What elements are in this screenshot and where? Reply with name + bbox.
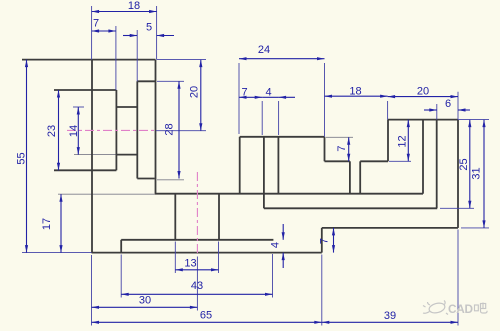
dimension 25 (458, 120, 472, 209)
ext line x=239 for dims 24,7 (238, 63, 240, 134)
ext line y=161 for dim 12 bottom (389, 160, 411, 162)
ext line x=437 for dim 6 (436, 104, 438, 120)
ext stub y=107 for dim 14 top (73, 106, 84, 108)
svg-text:7: 7 (318, 238, 330, 244)
part edge y=178.5 bottom of 5-band (137, 178, 154, 180)
watermark CAD logo icon (mouse doodle) (423, 301, 448, 315)
extension line y=194 for dim 17 top (58, 193, 155, 195)
part edge y=155 bottom of 14-band (116, 154, 137, 156)
ext line y=137 for dim 7 right (326, 136, 353, 138)
ext line y=208 for dim 25 bottom (440, 207, 474, 209)
part edge y=170 bottom of 23-band (ext to dim 23) (54, 169, 116, 171)
dimension 18 top (92, 0, 157, 13)
dimension 20 right (388, 86, 458, 99)
part edge y=107 top of 14-band (116, 106, 137, 108)
dimension 30 (92, 295, 198, 309)
ext line x=91.5 for dims 30,65 (91, 255, 93, 326)
centerline vertical x=197 slot (196, 172, 198, 254)
part left edge x=92 (91, 60, 93, 253)
svg-text:20: 20 (417, 86, 429, 98)
ext line x=116 for dim 7 (115, 26, 117, 90)
svg-text:28: 28 (164, 123, 176, 135)
dimension 28 (164, 81, 181, 178)
ext line x=458 for dims 20,6 (457, 92, 459, 120)
part edge y=90 top of 23-band (ext to dim 23) (54, 89, 116, 91)
svg-text:20: 20 (189, 86, 201, 98)
dimension 7 bottom (318, 228, 335, 253)
part right edge x=458 (457, 120, 459, 228)
ext line y=120 for dims 25,31 top (458, 119, 489, 121)
part edge x=324.5 (324, 137, 326, 162)
dimension 7 right (336, 137, 351, 161)
svg-text:18: 18 (349, 86, 361, 98)
part edge x=278 (dim 4 right) (277, 137, 279, 194)
dimension 23 (46, 90, 60, 170)
svg-text:55: 55 (15, 152, 27, 164)
part edge x=264 (263, 137, 265, 209)
dimension 20 left (189, 60, 203, 131)
dimension 31 (471, 120, 486, 228)
svg-text:6: 6 (445, 98, 451, 110)
part face y=161 left of slot (325, 160, 350, 162)
svg-text:24: 24 (258, 44, 270, 56)
ext line x=121 for dim 43 (120, 255, 122, 298)
svg-text:25: 25 (458, 158, 470, 170)
part internal edge y=208 (264, 207, 437, 209)
part bottom face y=253 (92, 252, 322, 254)
dimension 7 top-left (92, 18, 116, 33)
svg-text:43: 43 (191, 280, 203, 292)
dimension 39 (322, 310, 458, 324)
part edge x=116 between bands (115, 90, 117, 170)
ext line x=458 for dim 39 (457, 230, 459, 326)
dimension 12 (397, 120, 410, 162)
ext line y=253 for dim 55 bottom (22, 252, 92, 254)
part top face y=120 right block (388, 119, 458, 121)
svg-text:65: 65 (200, 310, 212, 322)
extension line y=155 for dim 14 bottom (74, 154, 116, 156)
part edge y=228 bottom right step (322, 227, 458, 229)
svg-text:7: 7 (336, 145, 348, 151)
dimension 18 right (325, 86, 388, 98)
svg-text:23: 23 (46, 125, 58, 137)
part top face y=60 (with dim-55 extension to left) (22, 59, 156, 61)
centerline horizontal y=130 left column (67, 129, 156, 131)
extension of centerline to dim 20 left (156, 130, 206, 132)
ext line x=388 for dims 18,20 (387, 101, 389, 120)
svg-text:18: 18 (128, 0, 140, 12)
svg-text:7: 7 (241, 87, 247, 99)
ext line x=92 top for dims 18,7 (91, 6, 93, 60)
ext line x=262 for dims 7,4 (261, 101, 263, 135)
part slot edge x=360 (359, 161, 361, 193)
ext line x=137 for dim 5 (136, 30, 138, 81)
part slot edge x=350 (349, 161, 351, 193)
dimension 7 middle (239, 87, 262, 99)
ext line x=278.6 for dim 4 (278, 101, 280, 135)
dimension 43 (121, 280, 272, 296)
ext line x=197 for dim 30 (196, 257, 198, 311)
dimension 6 (424, 98, 470, 112)
part internal edge y=194 long midline (155, 193, 423, 195)
dimension 13 (175, 258, 218, 272)
svg-text:14: 14 (68, 125, 80, 137)
ext line y=60 for dim 20 top (157, 59, 206, 61)
dimension 65 (92, 310, 322, 324)
part internal edge y=240 (dim 4 step) (121, 239, 273, 241)
ext line x=324.5 for dims 24,18 (324, 63, 326, 137)
svg-text:12: 12 (397, 135, 409, 147)
svg-text:13: 13 (184, 258, 196, 270)
dimension 17 (41, 194, 62, 252)
svg-text:30: 30 (139, 295, 151, 307)
svg-text:4: 4 (265, 87, 271, 99)
dimension 4 bottom (270, 224, 285, 268)
dimension 4 middle (262, 87, 295, 99)
svg-text:31: 31 (471, 167, 483, 179)
part slot edge x=423 (422, 120, 424, 194)
part edge x=322 bottom step (321, 228, 323, 253)
svg-text:CAD: CAD (448, 302, 473, 316)
svg-text:17: 17 (41, 218, 53, 230)
part edge x=155.5 right of left column (155, 60, 157, 194)
ext line x=218.5 for dim 13 (218, 242, 220, 274)
part edge x=137 (136, 81, 138, 178)
svg-text:5: 5 (146, 22, 152, 34)
dimension 55 left (15, 60, 28, 253)
watermark glyph ba (drawn) (475, 303, 488, 314)
ext line y=81 for dim 28 top (157, 80, 184, 82)
part slot edge x=437 (dim 6 left) (436, 120, 438, 209)
ext line y=228 for dim 31 bottom (461, 227, 489, 229)
svg-text:4: 4 (270, 242, 282, 248)
ext line x=175 for dim 13 (174, 242, 176, 274)
extension line y=180 for dim 28 bottom (157, 179, 184, 181)
part slot edge x=175 (dim 13 left) (174, 194, 176, 240)
dimension 24 (239, 44, 325, 60)
part edge x=388 (387, 120, 389, 162)
ext line x=322 for dims 65,39 (321, 255, 323, 326)
part edge x=240 (239, 137, 241, 194)
part face y=161 right of slot (360, 160, 388, 162)
dimension 5 top (123, 22, 174, 38)
ext line x=272.5 for dim 43 (272, 254, 274, 298)
part step edge y=81 of 5-wide band (137, 80, 155, 82)
ext line x=156.6 for dims 18,5 (156, 6, 158, 60)
part face y=137 middle (dim 24) (240, 136, 325, 138)
part slot edge x=219 (dim 13 right) (218, 194, 220, 240)
svg-text:39: 39 (384, 310, 396, 322)
part step edge x=121 (dim 43 left) (120, 240, 122, 253)
dimension 14 (68, 107, 80, 155)
svg-text:7: 7 (93, 18, 99, 30)
